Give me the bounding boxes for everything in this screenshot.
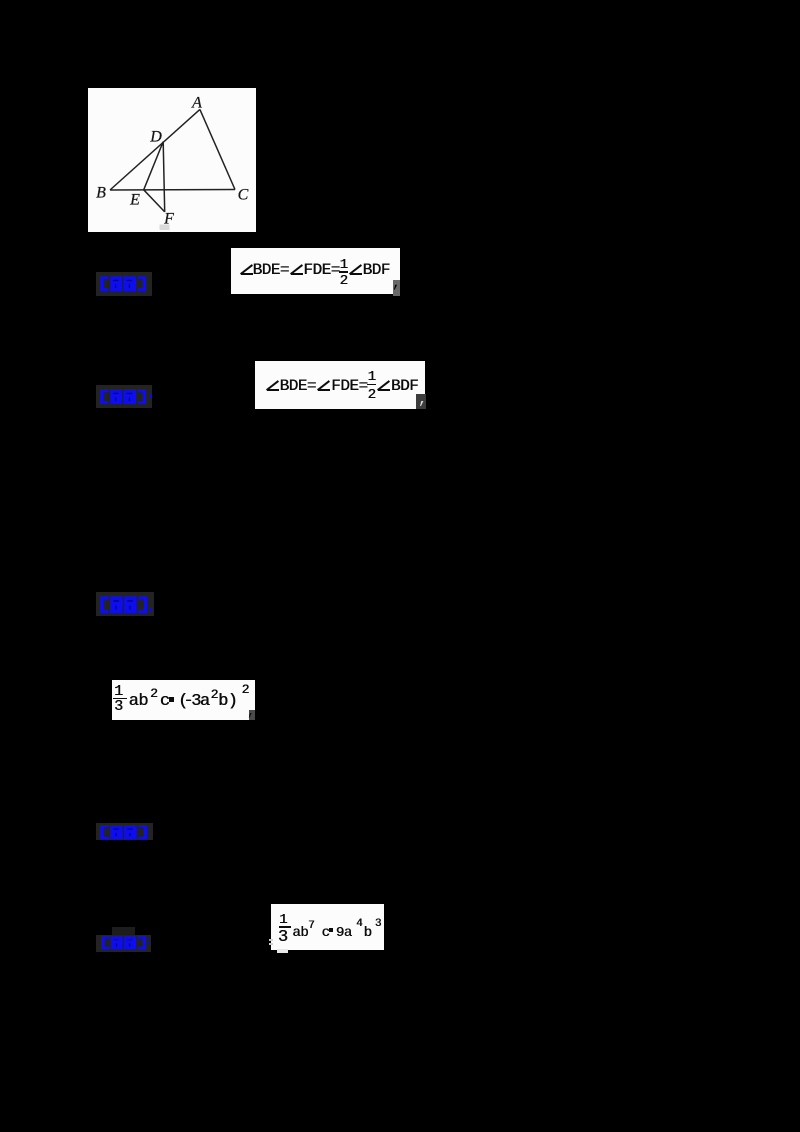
wire: segment A-C <box>200 109 235 189</box>
wire: segment B-A through D <box>110 109 200 190</box>
answer label 3 trailing blue dot <box>150 608 152 612</box>
geometry figure box (triangle ABC with D on AB, E on BC, F below) <box>88 88 256 232</box>
answer label 5 highlight bump <box>112 927 135 936</box>
formula 1 corner patch with comma <box>393 280 400 296</box>
formula image 1: angle BDE = angle FDE = 1/2 angle BDF <box>231 248 400 294</box>
answer label 5 trailing blue colon <box>148 938 150 940</box>
svg-text:E: E <box>129 192 140 209</box>
answer label 5 highlight box <box>96 935 151 952</box>
formula 4 bottom-left tab <box>277 949 288 953</box>
answer label 1 blue text <box>100 276 146 296</box>
formula 3 corner patch with comma <box>249 710 255 720</box>
svg-text:B: B <box>96 184 106 201</box>
answer label 2 blue text <box>100 389 146 409</box>
formula image 4: (1/3)ab^7c.9a^4b^3 <box>271 904 384 950</box>
answer label 4 highlight box <box>96 823 153 840</box>
formula 4 left equals mark <box>269 939 273 941</box>
answer label 5 blue text <box>101 936 146 954</box>
answer label 4 blue text <box>100 825 147 844</box>
formula image 3: (1/3)ab^2c.(-3a^2b)^2 <box>112 680 255 720</box>
svg-text:C: C <box>238 186 249 203</box>
answer label 3 blue text <box>100 596 147 618</box>
formula 2 corner patch with comma <box>416 394 426 409</box>
svg-text:D: D <box>149 129 162 146</box>
wire: segment B-C <box>110 189 235 192</box>
answer label 2 highlight box <box>96 385 152 408</box>
smudge under F <box>160 225 170 231</box>
svg-text:A: A <box>191 95 202 112</box>
answer label 3 highlight box <box>96 592 154 616</box>
wire: segment D-F <box>163 142 165 212</box>
answer label 2 trailing blue dot <box>150 394 152 397</box>
formula image 2: angle BDE = angle FDE = 1/2 angle BDF <box>255 361 425 409</box>
wire: segment D-E <box>144 142 164 190</box>
wire: segment E-F <box>144 190 165 212</box>
answer label 1 highlight box <box>96 272 152 296</box>
